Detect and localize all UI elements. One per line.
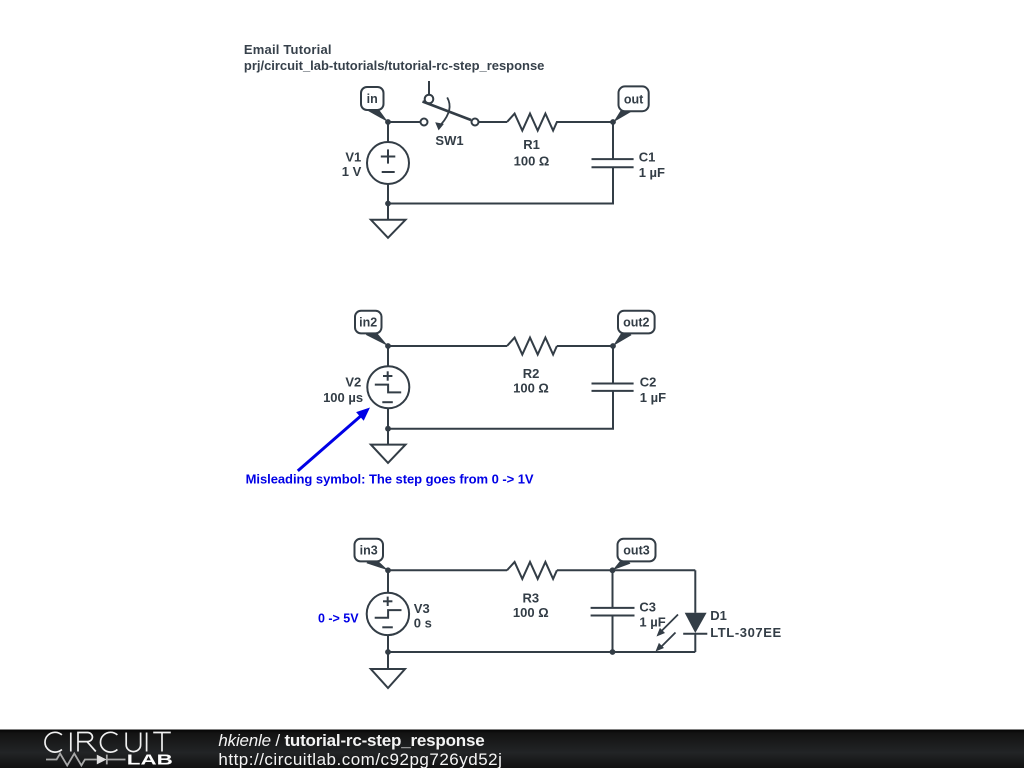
svg-text:1 µF: 1 µF xyxy=(640,390,666,405)
svg-text:V2: V2 xyxy=(345,375,361,390)
svg-text:in: in xyxy=(367,92,378,106)
svg-text:http://circuitlab.com/c92pg726: http://circuitlab.com/c92pg726yd52j xyxy=(218,750,502,768)
svg-text:C1: C1 xyxy=(639,150,656,165)
svg-text:100 µs: 100 µs xyxy=(323,390,363,405)
svg-text:1 µF: 1 µF xyxy=(639,165,665,180)
svg-text:0 s: 0 s xyxy=(414,615,432,630)
svg-text:D1: D1 xyxy=(710,608,727,623)
svg-text:R1: R1 xyxy=(523,137,540,152)
svg-text:100 Ω: 100 Ω xyxy=(513,605,549,620)
svg-text:out3: out3 xyxy=(623,544,649,558)
svg-text:out2: out2 xyxy=(623,316,649,330)
svg-text:100 Ω: 100 Ω xyxy=(514,154,550,169)
svg-text:1 V: 1 V xyxy=(342,164,362,179)
svg-text:C2: C2 xyxy=(640,374,657,389)
svg-text:hkienle / tutorial-rc-step_res: hkienle / tutorial-rc-step_response xyxy=(218,731,484,750)
svg-text:Email Tutorial: Email Tutorial xyxy=(244,42,332,57)
svg-text:R3: R3 xyxy=(522,590,539,605)
svg-text:100 Ω: 100 Ω xyxy=(513,380,549,395)
svg-text:LTL-307EE: LTL-307EE xyxy=(710,625,782,640)
svg-text:out: out xyxy=(624,93,644,107)
svg-text:SW1: SW1 xyxy=(435,133,463,148)
svg-text:V3: V3 xyxy=(414,601,430,616)
svg-text:V1: V1 xyxy=(345,149,361,164)
svg-text:in3: in3 xyxy=(360,544,378,558)
svg-text:LAB: LAB xyxy=(127,752,173,768)
svg-text:1 µF: 1 µF xyxy=(639,614,665,629)
svg-text:Misleading symbol: The step go: Misleading symbol: The step goes from 0 … xyxy=(246,472,534,487)
svg-text:in2: in2 xyxy=(359,316,377,330)
svg-text:C3: C3 xyxy=(639,600,656,615)
svg-text:prj/circuit_lab-tutorials/tuto: prj/circuit_lab-tutorials/tutorial-rc-st… xyxy=(244,58,545,73)
svg-text:R2: R2 xyxy=(523,366,540,381)
svg-text:0 -> 5V: 0 -> 5V xyxy=(318,612,359,626)
